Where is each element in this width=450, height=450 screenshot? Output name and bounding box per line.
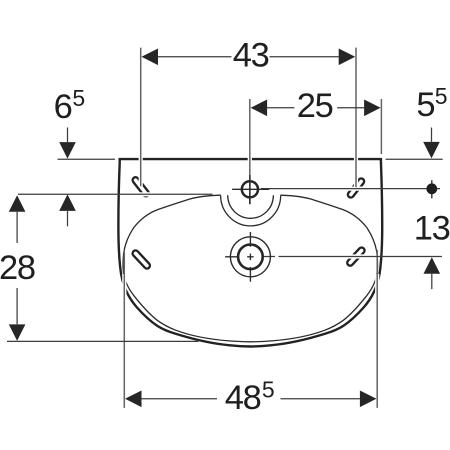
svg-text:5: 5 bbox=[416, 86, 434, 124]
svg-text:5: 5 bbox=[262, 377, 275, 403]
svg-text:13: 13 bbox=[414, 210, 450, 248]
svg-text:25: 25 bbox=[297, 87, 333, 125]
svg-text:28: 28 bbox=[0, 249, 35, 287]
svg-text:6: 6 bbox=[54, 88, 72, 126]
svg-text:48: 48 bbox=[225, 379, 261, 417]
svg-text:5: 5 bbox=[72, 85, 85, 111]
svg-text:43: 43 bbox=[233, 37, 269, 75]
svg-text:5: 5 bbox=[435, 83, 448, 109]
